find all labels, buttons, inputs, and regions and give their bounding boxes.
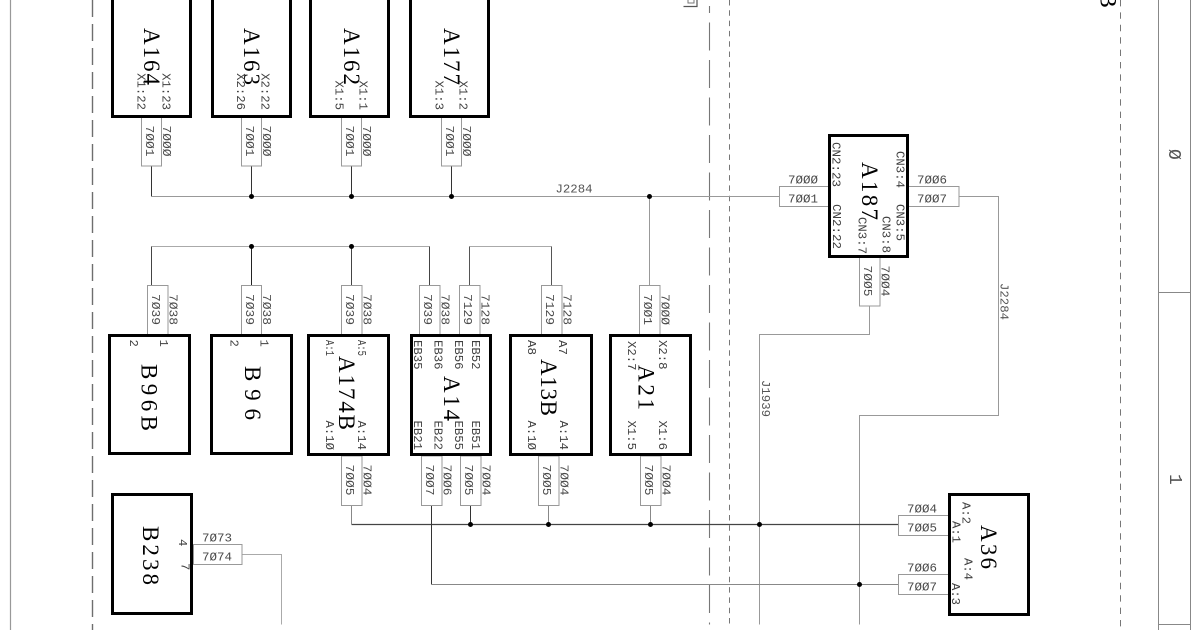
wire A174B A:14/A:10 drop to 7004/7005 bus: [351, 506, 353, 525]
svg-text:7ØØ4: 7ØØ4: [360, 465, 374, 496]
svg-text:7ØØ4: 7ØØ4: [557, 465, 571, 496]
svg-text:7ØØ5: 7ØØ5: [342, 465, 356, 496]
harness boundary dashed line left: [92, 0, 94, 630]
wire tag 7005/7004 at A36 A:2/A:1: [899, 503, 949, 536]
svg-text:EB55: EB55: [451, 421, 465, 451]
svg-text:7Ø38: 7Ø38: [166, 294, 180, 325]
svg-text:4: 4: [175, 539, 189, 546]
wire 7000/7001 from A177 X1 to J2284 bus: [451, 166, 453, 197]
svg-text:X1:23: X1:23: [159, 73, 173, 110]
svg-text:7ØØ4: 7ØØ4: [878, 266, 892, 297]
svg-text:CN2:23: CN2:23: [829, 142, 843, 187]
svg-text:2: 2: [227, 340, 241, 347]
svg-text:7ØØ7: 7ØØ7: [907, 581, 937, 595]
svg-text:A:4: A:4: [961, 558, 975, 580]
svg-text:J2284: J2284: [556, 183, 593, 197]
svg-text:7128: 7128: [478, 294, 492, 325]
svg-text:7ØØØ: 7ØØØ: [159, 126, 173, 158]
svg-text:A:1: A:1: [949, 521, 963, 543]
svg-text:7ØØ5: 7ØØ5: [907, 522, 937, 536]
junction net 7038/7039 / A174B drop: [349, 244, 354, 249]
svg-text:7129: 7129: [460, 294, 474, 325]
svg-text:EB36: EB36: [431, 340, 445, 370]
junction J2284 bus / A163 drop: [249, 194, 254, 199]
control unit A14: [410, 336, 491, 455]
svg-text:1: 1: [156, 340, 170, 347]
junction bus 7004/7005 / J1939 drop: [757, 522, 762, 527]
wire tag 7001/7000 above A21: [640, 286, 672, 336]
wire bus 7006/7007 horizontal to A36: [432, 584, 899, 586]
svg-text:7: 7: [178, 563, 192, 570]
wire tag 7039/7038 above B96B: [148, 286, 180, 335]
svg-text:X1:1: X1:1: [356, 80, 370, 110]
wire bus 7004/7005 horizontal to A36: [352, 524, 899, 526]
wire tag 7007/7006 at A187 CN3: [909, 174, 960, 207]
wire tag 7005/7004 below A174B: [342, 456, 374, 506]
svg-text:A13B: A13B: [536, 359, 561, 416]
svg-text:B238: B238: [138, 526, 163, 585]
svg-text:7ØØ6: 7ØØ6: [907, 562, 937, 576]
svg-text:7Ø73: 7Ø73: [202, 532, 232, 546]
control unit A174B: [309, 336, 389, 455]
svg-text:X2:7: X2:7: [624, 341, 638, 371]
clipped connector mark top center: [684, 0, 698, 7]
svg-text:7ØØ6: 7ØØ6: [440, 465, 454, 496]
wire tag 7039/7038 above A14: [420, 286, 452, 335]
wire tag 7001/7000 below A163: [242, 117, 274, 166]
svg-text:A:1Ø: A:1Ø: [524, 421, 538, 451]
junction J2284 bus / A21 drop: [647, 194, 652, 199]
wire A13B A:14/A:10 drop to 7004/7005 bus: [548, 506, 550, 525]
svg-text:7Ø38: 7Ø38: [360, 294, 374, 325]
svg-text:EB35: EB35: [410, 340, 424, 370]
svg-text:7Ø39: 7Ø39: [420, 294, 434, 325]
svg-text:A8: A8: [524, 340, 538, 355]
svg-text:CN3:8: CN3:8: [879, 216, 893, 253]
svg-text:A:1: A:1: [322, 340, 336, 356]
wire J1939 from A187 CN3:7/CN3:8 down-left to bottom edge: [760, 306, 870, 625]
wire A14 EB55/EB51 drop to 7004/7005 bus: [470, 506, 472, 525]
control unit A13B: [511, 336, 592, 455]
svg-text:7ØØ1: 7ØØ1: [242, 126, 256, 157]
svg-text:A162: A162: [339, 28, 364, 85]
svg-text:7Ø74: 7Ø74: [202, 551, 232, 565]
harness boundary short-dash line right: [1120, 0, 1122, 627]
svg-text:7ØØØ: 7ØØØ: [359, 126, 373, 158]
component B238: [113, 495, 192, 614]
wire tag 7007/7006 below A14: [422, 456, 454, 506]
wire net 7128/7129 drop to A13B: [551, 247, 553, 286]
junction bus 7004/7005 / A14 drop: [468, 522, 473, 527]
junction bus 7004/7005 / A21 drop: [648, 522, 653, 527]
svg-text:EB51: EB51: [468, 421, 482, 451]
svg-text:7ØØ5: 7ØØ5: [539, 465, 553, 496]
svg-text:A:5: A:5: [354, 340, 368, 356]
svg-text:X1:5: X1:5: [332, 80, 346, 110]
wire 7000/7001 from A164 X1 to J2284 bus: [151, 166, 153, 197]
control unit A164: [113, 0, 191, 117]
svg-text:7ØØ1: 7ØØ1: [640, 294, 654, 325]
svg-text:A:14: A:14: [556, 421, 570, 451]
svg-text:CN3:4: CN3:4: [893, 151, 907, 188]
svg-text:7Ø38: 7Ø38: [438, 294, 452, 325]
svg-text:7Ø39: 7Ø39: [342, 294, 356, 325]
svg-text:7128: 7128: [560, 294, 574, 325]
wire net 7038/7039 drop to A174B: [351, 247, 353, 286]
wire 7073/7074 from B238 to bottom edge: [242, 555, 282, 625]
svg-text:7ØØ5: 7ØØ5: [461, 465, 475, 496]
wire tag 7039/7038 above A174B: [342, 286, 374, 335]
wire net 7128/7129 drop to A14: [469, 247, 471, 286]
svg-text:7ØØ4: 7ØØ4: [907, 503, 937, 517]
wire net 7038/7039 drop to B96B: [151, 247, 153, 286]
wire J2284 from A187 CN3:4/CN3:5 right and down: [860, 197, 999, 625]
wire tag 7039/7038 above B96: [242, 286, 274, 335]
wire net 7038/7039 horizontal: [152, 246, 430, 248]
wire tag 7001/7000 below A177: [442, 117, 474, 166]
junction bus 7004/7005 / A13B drop: [546, 522, 551, 527]
wire net 7038/7039 drop to B96: [251, 247, 253, 286]
wire net 7038/7039 drop to A14: [429, 247, 431, 286]
svg-text:7ØØ5: 7ØØ5: [641, 465, 655, 496]
control unit A177: [411, 0, 489, 117]
junction J2284 bus / A177 drop: [449, 194, 454, 199]
svg-text:X1:5: X1:5: [624, 421, 638, 451]
svg-text:A14: A14: [439, 376, 464, 422]
svg-text:X1:6: X1:6: [655, 421, 669, 451]
svg-text:7ØØØ: 7ØØØ: [459, 126, 473, 158]
svg-text:7ØØ1: 7ØØ1: [142, 126, 156, 157]
junction bus 7006/7007 / J2284 drop: [857, 582, 862, 587]
svg-text:EB21: EB21: [410, 421, 424, 451]
svg-text:A177: A177: [439, 28, 464, 85]
junction net 7038/7039 / B96 drop: [249, 244, 254, 249]
svg-text:X1:3: X1:3: [432, 80, 446, 110]
svg-text:X1:2: X1:2: [456, 80, 470, 110]
svg-text:A:14: A:14: [354, 421, 368, 451]
clipped label top right: [1096, 0, 1121, 8]
svg-text:A174B: A174B: [334, 356, 359, 430]
svg-text:7ØØØ: 7ØØØ: [259, 126, 273, 158]
wire tag 7129/7128 above A14: [460, 286, 492, 335]
wire tag 7005/7004 below A187: [860, 257, 892, 306]
svg-text:7ØØ1: 7ØØ1: [342, 126, 356, 157]
svg-text:X2:26: X2:26: [233, 73, 247, 110]
svg-text:7Ø38: 7Ø38: [259, 294, 273, 325]
control unit A187 gateway: [829, 136, 908, 257]
svg-text:X2:22: X2:22: [258, 73, 272, 110]
junction J2284 bus / A162 drop: [349, 194, 354, 199]
svg-text:CN2:22: CN2:22: [829, 204, 843, 249]
wire tag 7005/7004 below A14: [461, 456, 493, 506]
wire tag 7001/7000 below A164: [142, 117, 174, 166]
svg-text:A:3: A:3: [948, 583, 962, 605]
svg-text:7Ø39: 7Ø39: [148, 294, 162, 325]
svg-text:CN3:7: CN3:7: [855, 217, 869, 254]
wire tag 7001/7000 below A162: [342, 117, 374, 166]
svg-text:A187: A187: [857, 162, 882, 220]
wire 7000/7001 from A162 X1 to J2284 bus: [351, 166, 353, 197]
control unit A163: [213, 0, 291, 117]
svg-text:EB22: EB22: [431, 421, 445, 451]
wire 7000/7001 from A163 X2 to J2284 bus: [251, 166, 253, 197]
svg-text:J2284: J2284: [997, 283, 1011, 320]
svg-text:7ØØ6: 7ØØ6: [917, 174, 947, 188]
svg-text:A36: A36: [976, 525, 1001, 569]
wire tag 7129/7128 above A13B: [542, 286, 574, 335]
svg-text:1: 1: [1164, 474, 1184, 485]
svg-text:Ø: Ø: [1163, 149, 1183, 160]
harness boundary short-dash line center: [729, 0, 731, 625]
svg-text:7ØØ1: 7ØØ1: [788, 193, 818, 207]
svg-text:7ØØØ: 7ØØØ: [658, 294, 672, 326]
wire A21 X1:6/X1:5 drop to 7004/7005 bus: [650, 506, 652, 525]
svg-text:A:1Ø: A:1Ø: [322, 421, 336, 451]
svg-text:1: 1: [257, 340, 271, 347]
svg-text:EB56: EB56: [451, 340, 465, 370]
control unit A162: [311, 0, 389, 117]
wire J2284 bus horizontal: [152, 196, 780, 198]
svg-text:CN3:5: CN3:5: [893, 204, 907, 241]
svg-text:7ØØ7: 7ØØ7: [917, 193, 947, 207]
wire tag 7007/7006 at A36 A:4/A:3: [899, 562, 949, 595]
svg-text:7ØØØ: 7ØØØ: [788, 174, 819, 188]
component B96B: [110, 336, 190, 454]
svg-text:7ØØ4: 7ØØ4: [659, 465, 673, 496]
svg-text:X1:22: X1:22: [134, 73, 148, 110]
svg-text:7ØØ7: 7ØØ7: [422, 465, 436, 496]
control unit A36: [948, 495, 1029, 615]
wire tag 7005/7004 below A21: [641, 456, 673, 506]
svg-text:7ØØ4: 7ØØ4: [479, 465, 493, 496]
wire J2284 bus drop to A21 tag: [649, 197, 651, 286]
wire A14 EB21/EB22 drop to 7006/7007 bus: [431, 506, 433, 585]
svg-text:2: 2: [126, 340, 140, 347]
component B96: [212, 336, 292, 454]
wire tag 7005/7004 below A13B: [539, 456, 571, 506]
harness boundary long-dash line center: [709, 6, 711, 625]
svg-text:7129: 7129: [542, 294, 556, 325]
svg-text:A7: A7: [555, 340, 569, 355]
control unit A21: [611, 336, 691, 455]
svg-text:7ØØ5: 7ØØ5: [860, 266, 874, 297]
svg-text:B96: B96: [240, 366, 265, 420]
wire tag 7001/7000 at A187 CN2: [780, 174, 829, 207]
wire net 7128/7129 horizontal: [470, 246, 552, 248]
svg-text:7Ø39: 7Ø39: [242, 294, 256, 325]
svg-text:EB52: EB52: [468, 340, 482, 370]
svg-text:A21: A21: [634, 365, 659, 410]
svg-text:J1939: J1939: [758, 380, 772, 417]
svg-text:B: B: [1096, 0, 1121, 8]
svg-text:X2:8: X2:8: [655, 340, 669, 370]
wire tag 7074/7073 at B238: [194, 532, 243, 565]
svg-text:7ØØ1: 7ØØ1: [442, 126, 456, 157]
